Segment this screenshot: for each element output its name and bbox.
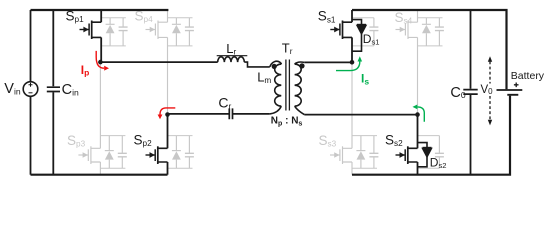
polarity dot secondary: [299, 63, 304, 68]
node B junction dot: [165, 112, 170, 117]
wire: Sp2 source down to bottom rail: [167, 162, 169, 175]
node A junction dot: [98, 60, 103, 65]
wire gray: top rail down to Sp4 drain: [167, 10, 169, 22]
wire gray: Ss4 source down to node Bs: [417, 37, 419, 114]
voltage V0 dashed arrow: [488, 56, 492, 125]
wire: primary bottom rail: [31, 174, 168, 176]
wire node A to Lr: [100, 61, 217, 63]
snubber capacitor of Ss1 (gray): [352, 18, 378, 46]
capacitor C0: [470, 10, 472, 175]
Sp3 snubber capacitor: [121, 136, 123, 169]
wire: Sp1 source down to node A: [100, 37, 102, 62]
transistor Sp4 (inactive, gray) cell: [146, 10, 194, 115]
Ss3 connectors: [352, 135, 377, 137]
wire: secondary top rail: [352, 10, 507, 89]
svg-text:Battery: Battery: [511, 70, 545, 82]
core: [286, 60, 290, 111]
wire transformer secondary top to node As: [304, 61, 352, 63]
wire transformer bottom to Cr: [233, 113, 270, 115]
current arrow Is at node Bs: [413, 105, 425, 122]
snubber diode of Sp2 (gray): [168, 136, 194, 169]
wire transformer secondary bottom to node Bs: [304, 114, 417, 116]
diode Ds2 (body diode of Ss2): [418, 143, 432, 167]
transistor Ss4 (inactive, gray) cell: [396, 10, 444, 115]
battery plus sign: [514, 83, 519, 88]
transistor Ss1: [330, 10, 352, 62]
current arrow Ip at node B: [158, 108, 176, 119]
transistor Ss3 (inactive, gray) cell: [330, 62, 378, 174]
svg-text:Np : Ns: Np : Ns: [271, 116, 303, 128]
diode Ds1 (body diode of Ss1): [352, 20, 366, 52]
Ss3 snubber capacitor: [373, 136, 375, 169]
Ss4 mosfet: [396, 29, 406, 31]
wire: Ss1 source down to node As: [351, 37, 353, 62]
snubber capacitor of Sp1 (gray): [122, 18, 124, 46]
Ss4 connectors: [418, 17, 443, 19]
secondary winding: [295, 62, 305, 64]
transistor Sp1: [80, 10, 102, 62]
transformer Tr: [270, 60, 305, 115]
wire Cr to node B: [168, 113, 229, 115]
Sp3 connectors: [100, 135, 125, 137]
snubber capacitor of Sp2 (gray): [188, 136, 190, 169]
capacitor Cin: [52, 10, 54, 175]
Sp4 mosfet: [146, 29, 156, 31]
wire: Ss2 source down to bottom rail: [417, 162, 419, 175]
wire: left rail top (Vin branch): [30, 10, 32, 82]
node Bs junction dot: [415, 112, 420, 117]
wire jog after Lr: [244, 62, 269, 67]
wire leg A gray: node A down to Sp3 drain: [99, 62, 101, 148]
current arrow Is at node As: [336, 56, 362, 70]
polarity dot primary: [272, 64, 277, 69]
Ss3 mosfet: [330, 154, 340, 156]
Ss4 snubber capacitor: [438, 18, 440, 46]
wire: node Bs down to Ss2 drain: [417, 115, 419, 149]
wire: left rail bottom: [30, 96, 32, 174]
transistor Sp3 (inactive, gray) cell: [78, 62, 126, 175]
current arrow Ip at node A: [96, 51, 109, 71]
Ss3 body diode: [360, 136, 362, 169]
wire gray: top rail down to Ss4 drain: [417, 10, 419, 22]
wire: secondary bottom rail: [352, 96, 510, 175]
Sp4 connectors: [168, 17, 193, 19]
Ss4 body diode: [425, 18, 427, 46]
wire gray: Sp4 source down to node B (crosses black wire A): [167, 37, 169, 114]
primary winding Lm: [270, 61, 282, 67]
transistor Ss2: [396, 115, 418, 175]
capacitor Cr: [229, 108, 232, 119]
wire: node B down to Sp2 drain: [167, 115, 169, 149]
wire leg gray: node As down to Ss3 (crosses secondary bottom wire): [351, 62, 353, 148]
transistor Sp2: [146, 115, 168, 175]
node As junction dot: [350, 60, 355, 65]
source Vin circle: [23, 82, 38, 97]
snubber capacitor of Ss2 (gray): [418, 136, 444, 169]
Sp3 mosfet: [78, 154, 88, 156]
inductor Lr: [217, 56, 270, 67]
snubber diode of Sp1 (gray): [101, 18, 127, 46]
Sp4 snubber capacitor: [188, 18, 190, 46]
wire: primary top rail: [31, 9, 169, 11]
Sp4 body diode: [175, 18, 177, 46]
battery symbol: [497, 89, 523, 91]
Sp3 body diode: [108, 136, 110, 169]
